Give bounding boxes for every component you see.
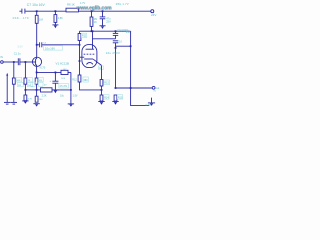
wire top rail left lead [19,10,21,12]
svg-text:10u 250V: 10u 250V [106,51,120,55]
svg-text:1M: 1M [39,17,44,21]
resistor R2b gate [24,62,26,78]
capacitor C8 [102,11,104,17]
svg-text:5.6V: 5.6V [18,45,24,49]
wire source feedback [37,71,71,73]
ground R15 [112,101,118,103]
capacitor C1 [17,58,19,65]
ground C8 [100,25,106,27]
svg-text:R11: R11 [82,35,87,38]
resistor R3 source [36,67,38,78]
svg-text:R15: R15 [118,96,123,99]
potentiometer wiper arrow [6,73,8,76]
wire right vertical [131,31,150,105]
terminal 24V [151,10,154,13]
resistor R4 [24,95,27,101]
tube V1 envelope [82,45,97,68]
svg-text:1K: 1K [99,68,102,70]
resistor R15 [114,95,117,101]
wire source divider feedback [25,89,40,91]
resistor R12 [78,75,81,82]
svg-text:IN: IN [0,55,3,59]
svg-text:1.5V: 1.5V [73,94,78,97]
capacitor C9 [115,31,117,33]
svg-text:24V: 24V [151,13,156,17]
resistor R11 [79,31,81,33]
svg-text:1.8K: 1.8K [58,17,63,20]
ground R2 [54,22,56,24]
ground wiper [4,101,10,103]
svg-text:4.7K: 4.7K [28,99,33,101]
capacitor C7 [21,9,23,14]
node junction R2 top [55,10,57,12]
wire top rail [25,10,151,12]
wire bypass vertical [70,72,72,103]
resistor RG [61,70,68,74]
node grid junction [79,60,81,62]
svg-text:K170: K170 [40,66,46,69]
svg-text:1.7V: 1.7V [80,2,85,5]
node C4 junction [79,44,81,46]
tube cathode [84,58,93,60]
ground R4 [22,100,28,102]
svg-text:10u: 10u [60,95,65,98]
wire B anode to caps [93,38,116,40]
svg-text:680: 680 [84,79,89,82]
svg-text:R12: R12 [72,79,77,82]
label cathode pin [99,66,104,70]
tube grid [84,53,96,55]
svg-text:www.eglib.com: www.eglib.com [76,5,113,11]
resistor R1 [36,11,38,15]
transistor V2 JFET [32,57,41,66]
svg-text:50K: 50K [17,80,21,82]
svg-text:R8 1K: R8 1K [67,3,75,7]
ground bypass [68,103,74,105]
ground C5 [52,89,59,91]
node junction R9 top [91,10,93,12]
svg-text:V1 6C11B: V1 6C11B [56,62,69,66]
svg-text:10u 16V: 10u 16V [45,46,55,50]
resistor R8 [66,8,79,12]
ground pot [11,101,17,103]
svg-text:4.7K: 4.7K [145,103,151,107]
svg-text:R8L 1.7V: R8L 1.7V [116,2,129,6]
node junction R1 top [36,10,38,12]
node junction C8 top [102,10,104,12]
capacitor C5 [54,72,56,81]
capacitor C4 [37,44,40,46]
svg-text:47u 6V: 47u 6V [60,85,68,88]
node drain junction [36,44,38,46]
resistor R2 [54,11,56,14]
resistor R5 [35,96,38,102]
ground output [151,98,153,103]
svg-text:1K: 1K [94,21,97,24]
ground R14 [98,101,104,103]
svg-text:C1 1u: C1 1u [14,51,21,55]
resistor R6 [41,88,53,92]
wire input [3,61,18,63]
svg-text:R14: R14 [104,96,109,99]
svg-text:C10: C10 [117,41,122,44]
wire output [116,87,153,89]
ground R5 [33,103,39,105]
svg-text:R13: R13 [104,82,109,85]
wire anode rail A [80,30,131,32]
wire R1 to drain [36,23,38,56]
capacitor C10 [113,40,118,42]
label band boxes [18,82,24,86]
resistor R9 [91,11,93,17]
cathode resistor R13 [101,66,103,80]
svg-text:25V: 25V [106,21,111,24]
svg-text:2SK...170: 2SK...170 [13,16,29,20]
wire C [116,45,131,47]
potentiometer R1pot [13,62,15,78]
svg-text:2.2K: 2.2K [42,94,47,97]
tube anode [86,48,94,50]
resistor R14 [100,95,103,101]
terminal output [152,86,155,89]
svg-text:out: out [156,86,160,90]
svg-text:C7 10u 16V: C7 10u 16V [27,3,46,7]
